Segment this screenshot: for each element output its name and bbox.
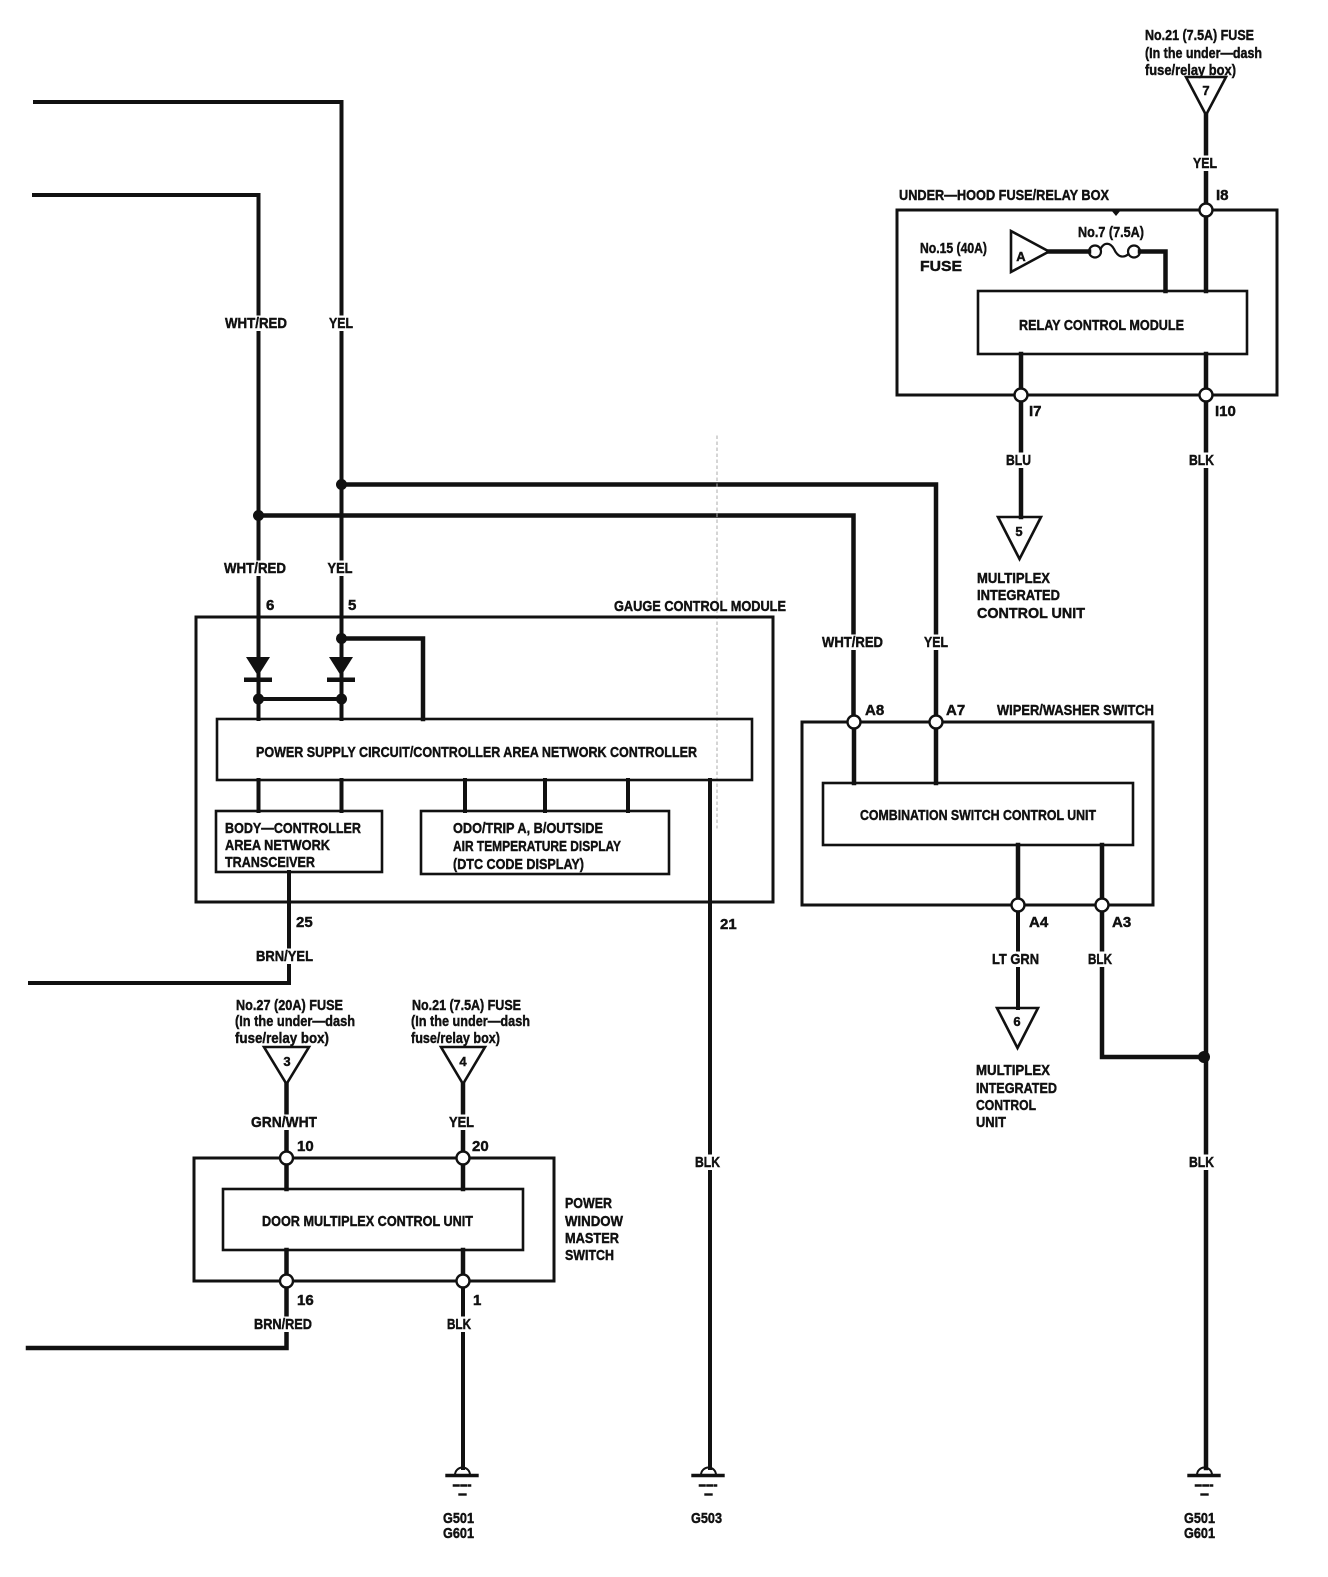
label G501/G601 (left) [443,1510,474,1542]
svg-text:BLK: BLK [447,1316,471,1333]
svg-text:A: A [1016,249,1026,264]
svg-text:No.27 (20A) FUSE: No.27 (20A) FUSE [236,997,343,1014]
svg-text:6: 6 [1013,1014,1020,1029]
label DOOR MULTIPLEX CONTROL UNIT [262,1213,473,1230]
svg-text:I8: I8 [1216,187,1229,204]
svg-text:COMBINATION SWITCH CONTROL UNI: COMBINATION SWITCH CONTROL UNIT [860,807,1096,824]
svg-text:7: 7 [1202,83,1209,98]
node A8 [848,716,861,729]
label YEL (above pin 5) [326,560,355,577]
label A3 [1112,914,1131,931]
svg-text:WHT/RED: WHT/RED [224,560,286,577]
node pin1 [457,1275,470,1288]
wire YEL branch to A7 [342,485,937,723]
svg-text:25: 25 [296,914,313,931]
label COMBINATION SWITCH CONTROL UNIT [860,807,1096,824]
box RELAY CONTROL MODULE [978,291,1247,354]
node I10 [1200,389,1213,402]
svg-text:LT GRN: LT GRN [992,951,1039,968]
pin label 1 [473,1292,481,1309]
wire branch from YEL to CAN controller [342,639,424,720]
diode D1 [244,657,272,682]
box BODY-CONTROLLER AREA NETWORK TRANSCEIVER [216,811,382,872]
wire GRN/WHT fuse3 to pin10 [284,1084,289,1160]
wire combination unit to A4 [1016,845,1021,905]
svg-text:AREA NETWORK: AREA NETWORK [225,837,330,854]
wire stub PSU to BODY transceiver (right) [340,780,344,811]
junction below D2 [336,694,347,705]
label YEL (fuse 4) [447,1114,476,1131]
svg-text:BODY—CONTROLLER: BODY—CONTROLLER [225,820,361,837]
pin 5 [348,597,356,614]
label YEL (wiper) [922,634,950,651]
svg-text:SWITCH: SWITCH [565,1247,614,1264]
label BRN/YEL [254,948,315,965]
wire pin25 BRN/YEL [30,872,289,983]
fuse text No.21 (7.5A) FUSE (lower) [411,997,530,1047]
label WHT/RED (above pin 6) [222,560,288,577]
connector 6 triangle [997,1008,1038,1048]
label LT GRN [990,951,1041,968]
svg-text:A3: A3 [1112,914,1131,931]
label WHT/RED (upper) [223,315,289,332]
svg-text:No.21 (7.5A) FUSE: No.21 (7.5A) FUSE [412,997,521,1014]
node pin20 [457,1152,470,1165]
label BLK (pin1) [445,1316,473,1333]
svg-text:BRN/YEL: BRN/YEL [256,948,313,965]
junction YEL branch [336,479,347,490]
svg-text:INTEGRATED: INTEGRATED [977,587,1060,604]
wire combination unit to A3 [1100,845,1105,905]
label BLK (21 wire) [693,1154,722,1171]
svg-text:YEL: YEL [924,634,948,651]
svg-text:YEL: YEL [1193,155,1217,172]
diode D2 [327,657,355,682]
connector 5 triangle [998,517,1041,559]
label I10 [1215,403,1236,420]
junction BLK [1198,1051,1210,1063]
box WIPER/WASHER SWITCH [802,722,1153,905]
svg-text:FUSE: FUSE [920,258,962,275]
node I7 [1015,389,1028,402]
node A4 [1012,899,1025,912]
wire YEL fuse4 to pin20 [461,1084,466,1160]
svg-text:MULTIPLEX: MULTIPLEX [976,1062,1050,1079]
label A7 [946,702,965,719]
svg-text:(In the under—dash: (In the under—dash [1145,45,1262,62]
svg-text:BLK: BLK [695,1154,720,1171]
node pin10 [280,1152,293,1165]
fuse text No.27 (20A) FUSE [235,997,355,1047]
crease artifact line [716,436,718,828]
svg-text:G601: G601 [1184,1525,1215,1542]
svg-text:POWER: POWER [565,1195,612,1212]
wire pin20 into door unit [461,1164,466,1189]
pin label 25 [296,914,313,931]
wire fuse element to relay module [1140,252,1166,292]
box POWER SUPPLY CIRCUIT/CONTROLLER AREA NETWORK CONTROLLER [217,719,752,780]
label MULTIPLEX INTEGRATED CONTROL UNIT (upper) [977,570,1085,622]
wire BRN/RED pin16 off page [28,1281,287,1348]
box POWER WINDOW MASTER SWITCH [194,1158,554,1281]
svg-text:A8: A8 [865,702,884,719]
wire door unit to pin16 [284,1250,289,1281]
node pin16 [280,1275,293,1288]
svg-text:fuse/relay box): fuse/relay box) [411,1030,500,1047]
label No.15 (40A) FUSE [920,240,987,275]
ground G501/G601 (left) [447,1468,477,1495]
svg-text:(In the under—dash: (In the under—dash [235,1013,355,1030]
svg-text:4: 4 [459,1054,467,1069]
fuse A triangle [1011,231,1049,272]
svg-text:6: 6 [266,597,274,614]
svg-text:BLU: BLU [1006,452,1031,469]
svg-text:WHT/RED: WHT/RED [225,315,287,332]
svg-text:5: 5 [1015,524,1022,539]
junction at diode D2 anode [336,633,347,644]
fuse text No.21 (7.5A) FUSE (top right) [1145,27,1262,79]
label I7 [1029,403,1042,420]
wire BLK I10 down to ground [1204,395,1209,1468]
label YEL (fuse 7) [1191,155,1219,172]
svg-text:1: 1 [473,1292,481,1309]
svg-text:GRN/WHT: GRN/WHT [251,1114,317,1131]
svg-text:(In the under—dash: (In the under—dash [411,1013,530,1030]
wire BLK A3 joins I10 BLK [1102,905,1204,1057]
pin 6 [266,597,274,614]
wire stub PSU to ODO display 1 [463,780,467,811]
node I8 [1200,204,1213,217]
svg-text:3: 3 [283,1054,290,1069]
wire fuse A to fuse element [1049,249,1089,254]
svg-text:I10: I10 [1215,403,1236,420]
fuse 7 triangle [1186,77,1226,115]
label BLK (A3) [1086,951,1114,968]
label BLK (right ground wire) [1187,1154,1216,1171]
wire relay module to I7 [1019,354,1024,395]
box DOOR MULTIPLEX CONTROL UNIT [223,1189,523,1250]
svg-text:fuse/relay box): fuse/relay box) [235,1030,329,1047]
ground G501/G601 (right) [1189,1468,1219,1495]
svg-text:MULTIPLEX: MULTIPLEX [977,570,1050,587]
wire fuse7 to I8 and into relay module [1204,115,1209,291]
svg-text:BLK: BLK [1088,951,1112,968]
svg-text:MASTER: MASTER [565,1230,619,1247]
wire stub PSU to ODO display 2 [543,780,547,811]
label WIPER/WASHER SWITCH [997,702,1154,719]
svg-text:I7: I7 [1029,403,1042,420]
fuse 4 triangle [441,1047,485,1084]
svg-text:CONTROL: CONTROL [976,1097,1036,1114]
svg-text:BLK: BLK [1189,452,1214,469]
wire BLK pin1 to ground G501 [461,1281,465,1468]
svg-text:16: 16 [297,1292,314,1309]
pin label 16 [297,1292,314,1309]
label A4 [1029,914,1049,931]
svg-text:No.7 (7.5A): No.7 (7.5A) [1078,224,1144,241]
box COMBINATION SWITCH CONTROL UNIT [823,783,1133,845]
label BLK (I10) [1187,452,1216,469]
svg-text:10: 10 [297,1138,314,1155]
svg-text:INTEGRATED: INTEGRATED [976,1080,1057,1097]
svg-text:GAUGE CONTROL MODULE: GAUGE CONTROL MODULE [614,598,786,615]
wire A8 to combination unit [852,728,857,783]
wire LT GRN A4 to MICU arrow [1016,905,1020,1008]
wire stub PSU to ODO display 3 [626,780,630,811]
svg-text:RELAY CONTROL MODULE: RELAY CONTROL MODULE [1019,317,1184,334]
fuse 3 triangle [264,1047,309,1084]
box GAUGE CONTROL MODULE [196,617,773,902]
wire pin10 into door unit [284,1164,289,1189]
wire pin21 BLK to G503 [708,780,712,1468]
svg-text:(DTC CODE DISPLAY): (DTC CODE DISPLAY) [453,856,584,873]
wire YEL main feed from top-left [35,102,342,719]
label POWER SUPPLY CIRCUIT/CONTROLLER AREA NETWORK CONTROLLER [256,744,697,761]
svg-text:YEL: YEL [449,1114,474,1131]
svg-text:CONTROL UNIT: CONTROL UNIT [977,605,1085,622]
label I8 [1216,187,1229,204]
wire BLU I7 to MICU arrow [1019,395,1024,517]
ground G503 [693,1468,723,1495]
svg-text:WIPER/WASHER SWITCH: WIPER/WASHER SWITCH [997,702,1154,719]
pin label 21 [720,916,737,933]
label BRN/RED [252,1316,314,1333]
svg-text:A7: A7 [946,702,965,719]
svg-text:UNDER—HOOD FUSE/RELAY BOX: UNDER—HOOD FUSE/RELAY BOX [899,187,1109,204]
svg-text:BLK: BLK [1189,1154,1214,1171]
label GAUGE CONTROL MODULE [614,598,786,615]
svg-text:A4: A4 [1029,914,1049,931]
pin label 10 [297,1138,314,1155]
svg-text:DOOR MULTIPLEX CONTROL UNIT: DOOR MULTIPLEX CONTROL UNIT [262,1213,473,1230]
label BLU [1004,452,1033,469]
pin label 20 [472,1138,489,1155]
svg-text:No.21 (7.5A) FUSE: No.21 (7.5A) FUSE [1145,27,1254,44]
wire A7 to combination unit [934,728,939,783]
svg-text:ODO/TRIP A, B/OUTSIDE: ODO/TRIP A, B/OUTSIDE [453,820,603,837]
node A3 [1096,899,1109,912]
junction below D1 [253,694,264,705]
tick mark on box top [1111,210,1121,216]
wire stub PSU to BODY transceiver (left) [257,780,261,811]
junction WHT/RED branch [253,510,264,521]
svg-text:UNIT: UNIT [976,1114,1006,1131]
svg-text:G503: G503 [691,1510,722,1527]
label UNDER-HOOD FUSE/RELAY BOX [899,187,1109,204]
label RELAY CONTROL MODULE [1019,317,1184,334]
svg-text:5: 5 [348,597,356,614]
label MULTIPLEX INTEGRATED CONTROL UNIT (lower) [976,1062,1057,1131]
svg-text:21: 21 [720,916,737,933]
wire WHT/RED main feed from top-left [34,195,259,719]
label GRN/WHT [249,1114,319,1131]
label ODO/TRIP A, B/OUTSIDE AIR TEMPERATURE DISPLAY (DTC CODE DISPLAY) [453,820,621,873]
wire door unit to pin1 [461,1250,466,1281]
label BODY-CONTROLLER AREA NETWORK TRANSCEIVER [225,820,361,871]
svg-text:POWER SUPPLY CIRCUIT/CONTROLLE: POWER SUPPLY CIRCUIT/CONTROLLER AREA NET… [256,744,697,761]
label No.7 (7.5A) [1078,224,1144,241]
svg-text:No.15 (40A): No.15 (40A) [920,240,987,257]
svg-text:YEL: YEL [328,560,353,577]
box UNDER-HOOD FUSE/RELAY BOX [897,210,1277,395]
node A7 [930,716,943,729]
label YEL (upper) [327,315,355,332]
wire WHT/RED branch to A8 [259,516,854,723]
svg-text:WINDOW: WINDOW [565,1213,624,1230]
label A8 [865,702,884,719]
svg-text:YEL: YEL [329,315,353,332]
svg-text:G601: G601 [443,1525,474,1542]
label G501/G601 (right) [1184,1510,1215,1542]
svg-text:AIR TEMPERATURE DISPLAY: AIR TEMPERATURE DISPLAY [453,838,621,855]
svg-text:20: 20 [472,1138,489,1155]
box ODO/TRIP display [421,811,669,874]
svg-text:WHT/RED: WHT/RED [822,634,883,651]
wire relay module to I10 [1204,354,1209,395]
label POWER WINDOW MASTER SWITCH [565,1195,624,1264]
label G503 [691,1510,722,1527]
svg-text:BRN/RED: BRN/RED [254,1316,312,1333]
svg-text:TRANSCEIVER: TRANSCEIVER [225,854,315,871]
fuse element No.7 [1089,244,1140,258]
label WHT/RED (wiper) [820,634,885,651]
wire joining diode cathodes [259,697,342,701]
